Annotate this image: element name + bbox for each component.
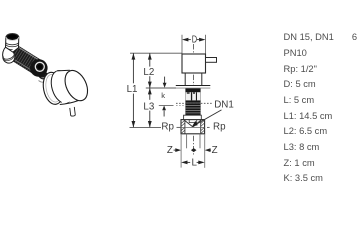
bottom extension lines	[180, 134, 182, 168]
side tab on cartridge	[206, 58, 217, 63]
wall flange plate	[176, 86, 211, 88]
valve body	[181, 120, 205, 134]
svg-text:DN1: DN1	[214, 100, 234, 111]
dimension k: outside arrows and label	[164, 77, 166, 84]
product illustration: elbow lower port	[3, 47, 15, 63]
horizontal pipe centerline with Rp labels	[130, 126, 162, 128]
specification text list	[284, 30, 358, 187]
dimension L1: line, arrows, label	[132, 53, 134, 83]
svg-text:Rp: Rp	[213, 122, 226, 133]
svg-text:L: L	[192, 158, 198, 169]
funnel housing below thread	[184, 115, 202, 119]
valve body inner port walls	[184, 120, 186, 134]
product illustration: knob rear cylinder	[48, 68, 77, 106]
svg-text:L2: L2	[143, 67, 154, 78]
product illustration: sleeve end cap nose	[36, 68, 50, 81]
product illustration: chrome escutcheon (round rosette)	[41, 71, 66, 106]
bottom stubs under valve body	[186, 134, 188, 149]
dimension Z right: arrow, line, label	[205, 148, 211, 152]
cartridge box	[182, 54, 206, 73]
k level solid line	[159, 105, 174, 107]
svg-text:Z: Z	[212, 145, 218, 156]
svg-text:D: D	[192, 35, 197, 46]
product illustration: knob face	[61, 67, 92, 104]
dashed level line to DN1	[176, 102, 213, 104]
inner seat rectangle	[189, 120, 197, 123]
svg-text:Rp: Rp	[161, 122, 174, 133]
right port hatching	[201, 120, 205, 133]
svg-text:L1: L1	[127, 84, 138, 95]
funnel V	[184, 120, 201, 127]
svg-text:k: k	[161, 91, 165, 100]
dimension D: extension lines	[181, 35, 183, 54]
wall surface extension line	[146, 87, 176, 89]
product illustration: sleeve end cap with rings	[30, 59, 48, 78]
centerline (vertical dash-dot axis)	[193, 44, 195, 156]
dimension Z: center diamond at axis	[191, 148, 197, 152]
svg-text:Z: Z	[167, 145, 173, 156]
dimension L: arrows and label	[181, 161, 187, 165]
left port hatching	[181, 120, 185, 133]
svg-text:L3: L3	[143, 101, 154, 112]
product illustration: protection sleeve (knurled cylinder)	[2, 41, 42, 75]
leader line DN1 with arrow	[195, 110, 221, 125]
threaded protection plug	[185, 88, 200, 115]
dimension L2: line, arrows, label	[149, 53, 151, 66]
dimension L3: line, arrows, label	[149, 88, 151, 100]
product illustration: elbow fitting top opening	[6, 33, 19, 40]
dimension D: dimension line and arrows	[182, 38, 188, 42]
product illustration: elbow fitting body	[6, 37, 19, 53]
product illustration: knob bottom tab	[70, 107, 76, 116]
neck below cartridge	[184, 73, 186, 85]
top extension line (top of cartridge)	[130, 52, 182, 54]
product illustration: knob connecting silhouette	[57, 70, 85, 105]
